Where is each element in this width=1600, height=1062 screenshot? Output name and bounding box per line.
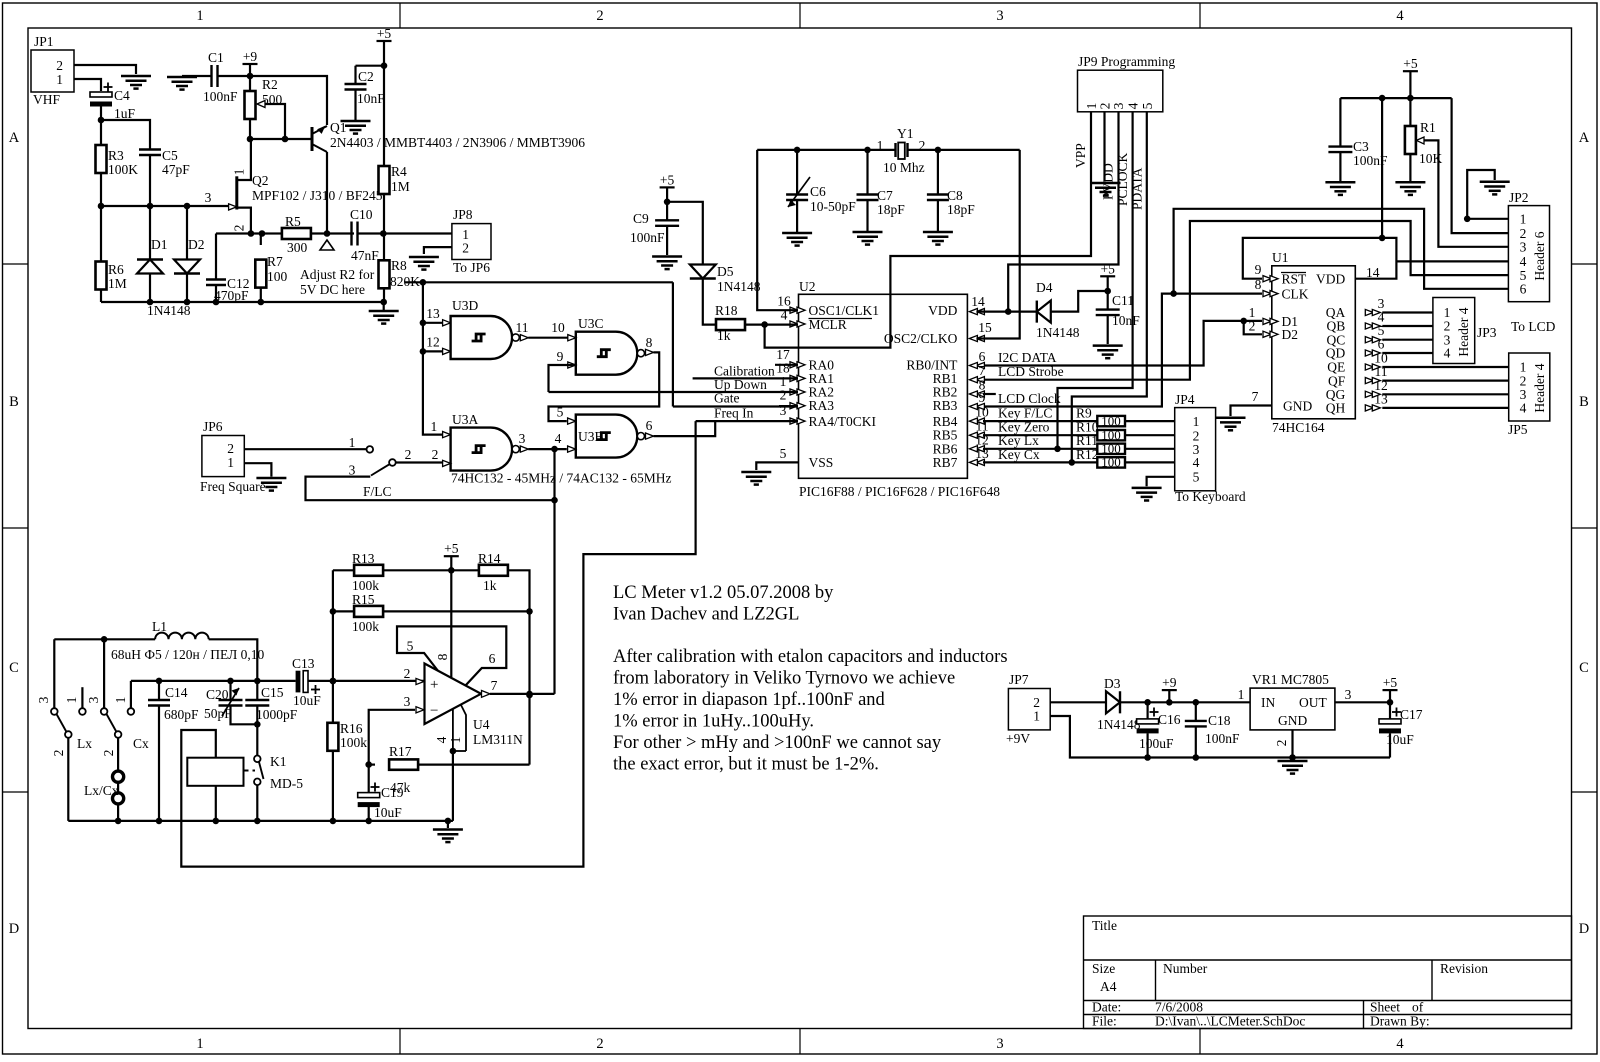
svg-text:of: of [1412, 1000, 1424, 1015]
svg-text:5V DC here: 5V DC here [300, 282, 365, 297]
svg-text:After calibration with etalon: After calibration with etalon capacitors… [613, 647, 1008, 667]
svg-text:R3: R3 [108, 148, 124, 163]
svg-text:1: 1 [1033, 709, 1040, 724]
svg-text:14: 14 [1366, 265, 1380, 280]
svg-text:RST: RST [1282, 272, 1308, 287]
svg-text:IN: IN [1261, 695, 1275, 710]
svg-text:R15: R15 [352, 592, 375, 607]
svg-text:R1: R1 [1420, 120, 1436, 135]
svg-text:D: D [9, 921, 19, 937]
svg-text:CLK: CLK [1282, 287, 1309, 302]
svg-text:VR1 MC7805: VR1 MC7805 [1252, 672, 1329, 687]
svg-text:2: 2 [51, 750, 66, 757]
svg-text:RA3: RA3 [809, 398, 835, 413]
svg-text:5: 5 [407, 639, 414, 654]
svg-text:47nF: 47nF [351, 248, 379, 263]
svg-text:1N4148: 1N4148 [1097, 717, 1141, 732]
svg-text:C14: C14 [165, 685, 188, 700]
svg-text:10nF: 10nF [357, 91, 385, 106]
svg-text:C17: C17 [1400, 707, 1423, 722]
svg-text:JP7: JP7 [1009, 672, 1029, 687]
svg-text:3: 3 [86, 696, 101, 703]
svg-text:4: 4 [1520, 401, 1527, 416]
svg-text:QH: QH [1326, 401, 1346, 416]
svg-text:PDATA: PDATA [1130, 167, 1145, 210]
svg-text:1N4148: 1N4148 [717, 279, 761, 294]
svg-text:R8: R8 [391, 258, 407, 273]
svg-text:LM311N: LM311N [473, 732, 523, 747]
svg-text:MD-5: MD-5 [270, 776, 303, 791]
svg-text:7: 7 [1252, 389, 1259, 404]
svg-text:Freq In: Freq In [714, 406, 754, 421]
svg-text:VDD: VDD [928, 303, 957, 318]
svg-text:Y1: Y1 [897, 126, 914, 141]
svg-text:C7: C7 [877, 188, 893, 203]
svg-text:4: 4 [1444, 346, 1451, 361]
svg-text:2: 2 [462, 241, 469, 256]
svg-text:+: + [430, 677, 438, 693]
svg-text:3: 3 [36, 696, 51, 703]
svg-text:7: 7 [979, 363, 986, 378]
svg-text:QD: QD [1326, 346, 1346, 361]
svg-text:D:\Ivan\..\LCMeter.SchDoc: D:\Ivan\..\LCMeter.SchDoc [1155, 1014, 1305, 1029]
svg-text:9: 9 [557, 349, 564, 364]
svg-text:−: − [430, 703, 438, 719]
svg-text:D4: D4 [1036, 280, 1053, 295]
svg-text:6: 6 [979, 349, 986, 364]
svg-text:3: 3 [996, 1036, 1003, 1052]
svg-text:+5: +5 [1101, 261, 1116, 276]
svg-text:300: 300 [287, 240, 308, 255]
svg-text:1k: 1k [717, 328, 731, 343]
svg-text:File:: File: [1092, 1014, 1117, 1029]
svg-text:GND: GND [1278, 713, 1307, 728]
svg-text:11: 11 [516, 320, 529, 335]
svg-text:Adjust R2 for: Adjust R2 for [300, 267, 375, 282]
svg-text:10: 10 [551, 320, 565, 335]
svg-text:JP4: JP4 [1175, 392, 1195, 407]
svg-text:B: B [9, 394, 19, 410]
svg-text:1N4148: 1N4148 [147, 303, 191, 318]
svg-text:C6: C6 [810, 184, 826, 199]
svg-text:3: 3 [996, 8, 1003, 24]
svg-text:K1: K1 [270, 754, 287, 769]
svg-text:U3D: U3D [452, 298, 478, 313]
svg-text:L1: L1 [152, 619, 167, 634]
svg-text:RB3: RB3 [933, 398, 958, 413]
svg-text:C1: C1 [208, 50, 224, 65]
svg-text:3: 3 [404, 694, 411, 709]
svg-text:1% error in 1uHy..100uHy.: 1% error in 1uHy..100uHy. [613, 712, 814, 732]
svg-text:3: 3 [780, 403, 787, 418]
svg-text:Cx: Cx [133, 736, 149, 751]
svg-text:1: 1 [1238, 687, 1245, 702]
svg-text:PVDD: PVDD [1101, 163, 1116, 200]
svg-text:C18: C18 [1208, 713, 1231, 728]
svg-text:9: 9 [1255, 262, 1262, 277]
svg-text:GND: GND [1283, 399, 1312, 414]
svg-text:U1: U1 [1272, 250, 1289, 265]
svg-text:R4: R4 [391, 164, 407, 179]
svg-text:Ivan Dachev and LZ2GL: Ivan Dachev and LZ2GL [613, 605, 799, 625]
svg-text:C15: C15 [261, 685, 284, 700]
svg-text:7/6/2008: 7/6/2008 [1155, 1000, 1203, 1015]
svg-text:R2: R2 [262, 77, 278, 92]
svg-text:I2C DATA: I2C DATA [998, 350, 1057, 365]
svg-text:+9: +9 [243, 49, 258, 64]
svg-text:F/LC: F/LC [363, 484, 392, 499]
svg-text:JP9 Programming: JP9 Programming [1078, 54, 1175, 69]
svg-text:100k: 100k [340, 735, 367, 750]
svg-text:10uF: 10uF [374, 805, 402, 820]
svg-text:OSC1/CLK1: OSC1/CLK1 [809, 303, 880, 318]
svg-text:C2: C2 [358, 69, 374, 84]
svg-text:100k: 100k [352, 619, 379, 634]
svg-text:R7: R7 [267, 254, 283, 269]
svg-text:Header 6: Header 6 [1532, 231, 1547, 280]
svg-text:3: 3 [1111, 102, 1126, 109]
svg-text:JP5: JP5 [1508, 422, 1528, 437]
svg-text:VPP: VPP [1073, 143, 1088, 168]
svg-text:4: 4 [555, 431, 562, 446]
svg-text:6: 6 [646, 418, 653, 433]
svg-text:VHF: VHF [33, 92, 60, 107]
svg-text:B: B [1579, 394, 1589, 410]
svg-text:1M: 1M [108, 276, 127, 291]
svg-text:+9V: +9V [1006, 731, 1030, 746]
svg-text:3: 3 [519, 431, 526, 446]
svg-text:U2: U2 [799, 279, 816, 294]
svg-text:1: 1 [877, 138, 884, 153]
svg-text:the exact error, but it must b: the exact error, but it must be 1-2%. [613, 755, 879, 775]
svg-text:2: 2 [227, 441, 234, 456]
svg-text:100: 100 [1101, 413, 1121, 428]
svg-text:D: D [1579, 921, 1589, 937]
svg-text:4: 4 [1125, 102, 1140, 109]
svg-text:Header 4: Header 4 [1456, 307, 1471, 356]
svg-text:1: 1 [349, 435, 356, 450]
svg-text:18pF: 18pF [947, 202, 975, 217]
svg-text:10 Mhz: 10 Mhz [883, 160, 925, 175]
svg-text:C4: C4 [114, 88, 130, 103]
svg-text:C13: C13 [292, 656, 315, 671]
svg-text:15: 15 [978, 320, 992, 335]
svg-text:Key F/LC: Key F/LC [998, 406, 1052, 421]
svg-text:100nF: 100nF [203, 89, 238, 104]
svg-text:D5: D5 [717, 264, 734, 279]
svg-text:1: 1 [227, 455, 234, 470]
svg-text:68uH Ф5 / 120н / ПЕЛ 0,10: 68uH Ф5 / 120н / ПЕЛ 0,10 [111, 647, 264, 662]
svg-text:5: 5 [780, 446, 787, 461]
svg-text:Q2: Q2 [252, 173, 269, 188]
svg-text:1: 1 [196, 8, 203, 24]
svg-text:1: 1 [232, 169, 247, 176]
svg-text:A: A [1579, 130, 1590, 146]
svg-text:470pF: 470pF [214, 288, 249, 303]
svg-text:Date:: Date: [1092, 1000, 1121, 1015]
svg-text:+5: +5 [660, 172, 675, 187]
svg-text:C3: C3 [1353, 139, 1369, 154]
svg-text:RB7: RB7 [933, 455, 958, 470]
svg-text:R18: R18 [715, 303, 738, 318]
svg-text:MCLR: MCLR [809, 317, 847, 332]
svg-text:18pF: 18pF [877, 202, 905, 217]
svg-text:3: 3 [205, 190, 212, 205]
svg-text:10nF: 10nF [1112, 313, 1140, 328]
svg-text:JP1: JP1 [34, 34, 54, 49]
svg-text:U3C: U3C [578, 316, 604, 331]
svg-text:C9: C9 [633, 211, 649, 226]
svg-text:2: 2 [432, 447, 439, 462]
svg-text:3: 3 [1345, 687, 1352, 702]
svg-text:JP6: JP6 [203, 419, 223, 434]
svg-text:1N4148: 1N4148 [1036, 325, 1080, 340]
svg-text:1: 1 [56, 72, 63, 87]
svg-text:C16: C16 [1158, 712, 1181, 727]
svg-text:C11: C11 [1112, 293, 1134, 308]
svg-text:1000pF: 1000pF [256, 707, 298, 722]
svg-text:Drawn By:: Drawn By: [1370, 1014, 1430, 1029]
svg-text:1: 1 [1193, 414, 1200, 429]
svg-text:PCLOCK: PCLOCK [1115, 152, 1130, 206]
svg-text:1: 1 [196, 1036, 203, 1052]
svg-text:R17: R17 [389, 744, 412, 759]
svg-text:VSS: VSS [809, 455, 834, 470]
svg-text:2: 2 [232, 225, 247, 232]
svg-text:Header 4: Header 4 [1532, 363, 1547, 412]
svg-text:C: C [1579, 660, 1589, 676]
svg-text:D1: D1 [151, 237, 168, 252]
svg-text:100K: 100K [108, 162, 138, 177]
svg-text:4: 4 [1396, 8, 1404, 24]
svg-text:A4: A4 [1100, 979, 1117, 994]
svg-text:LC Meter v1.2 05.07.2008 by: LC Meter v1.2 05.07.2008 by [613, 583, 834, 603]
svg-text:5: 5 [557, 405, 564, 420]
svg-text:OUT: OUT [1299, 695, 1327, 710]
svg-text:1: 1 [113, 697, 128, 704]
svg-text:JP3: JP3 [1477, 325, 1497, 340]
svg-text:13: 13 [426, 306, 440, 321]
svg-text:14: 14 [971, 294, 985, 309]
svg-text:100: 100 [267, 269, 288, 284]
svg-text:8: 8 [435, 653, 450, 660]
svg-text:100nF: 100nF [1205, 731, 1240, 746]
svg-text:2: 2 [596, 1036, 603, 1052]
svg-text:C20: C20 [206, 687, 229, 702]
svg-text:7: 7 [491, 678, 498, 693]
svg-text:9: 9 [979, 390, 986, 405]
svg-text:100uF: 100uF [1139, 736, 1174, 751]
svg-text:To Keyboard: To Keyboard [1175, 489, 1246, 504]
svg-text:C10: C10 [350, 207, 373, 222]
svg-text:47pF: 47pF [162, 162, 190, 177]
svg-text:R9: R9 [1076, 406, 1092, 421]
svg-text:10uF: 10uF [293, 693, 321, 708]
svg-text:R14: R14 [478, 551, 501, 566]
svg-text:+5: +5 [444, 541, 459, 556]
svg-text:50pF: 50pF [204, 706, 232, 721]
svg-text:U4: U4 [473, 717, 490, 732]
svg-text:A: A [9, 130, 20, 146]
svg-text:2: 2 [780, 388, 787, 403]
svg-text:Title: Title [1092, 918, 1117, 933]
svg-text:R13: R13 [352, 551, 375, 566]
svg-text:1M: 1M [391, 179, 410, 194]
svg-text:2N4403 / MMBT4403 / 2N3906 / M: 2N4403 / MMBT4403 / 2N3906 / MMBT3906 [330, 135, 585, 150]
svg-text:PIC16F88 / PIC16F628 / PIC16F6: PIC16F88 / PIC16F628 / PIC16F648 [799, 484, 1000, 499]
svg-text:Lx: Lx [77, 736, 92, 751]
svg-text:OSC2/CLKO: OSC2/CLKO [884, 331, 958, 346]
svg-text:Freq Square: Freq Square [200, 479, 266, 494]
svg-text:LCD Clock: LCD Clock [998, 391, 1061, 406]
svg-text:8: 8 [646, 335, 653, 350]
svg-text:4: 4 [1193, 455, 1200, 470]
svg-text:MPF102 / J310 / BF245: MPF102 / J310 / BF245 [252, 188, 383, 203]
svg-text:2: 2 [405, 447, 412, 462]
svg-text:1: 1 [448, 737, 463, 744]
svg-text:2: 2 [1274, 740, 1289, 747]
svg-text:To LCD: To LCD [1511, 319, 1556, 334]
svg-text:3: 3 [349, 463, 356, 478]
svg-text:D2: D2 [1282, 327, 1299, 342]
svg-text:+5: +5 [377, 26, 392, 41]
svg-text:1uF: 1uF [114, 106, 136, 121]
svg-text:C8: C8 [947, 188, 963, 203]
svg-text:Sheet: Sheet [1370, 1000, 1400, 1015]
svg-text:4: 4 [1396, 1036, 1404, 1052]
svg-text:5: 5 [1140, 102, 1155, 109]
svg-text:C: C [9, 660, 19, 676]
svg-text:+5: +5 [1403, 56, 1418, 71]
svg-text:To JP6: To JP6 [453, 260, 490, 275]
svg-text:R16: R16 [340, 721, 363, 736]
svg-text:47k: 47k [390, 780, 411, 795]
svg-text:U3A: U3A [452, 412, 478, 427]
svg-text:12: 12 [426, 335, 440, 350]
svg-text:1: 1 [431, 419, 438, 434]
svg-text:2: 2 [101, 750, 116, 757]
svg-text:C5: C5 [162, 148, 178, 163]
svg-text:R5: R5 [285, 214, 301, 229]
svg-text:1: 1 [1520, 212, 1527, 227]
svg-text:D2: D2 [188, 237, 205, 252]
svg-text:RA4/T0CKI: RA4/T0CKI [809, 414, 877, 429]
svg-text:1k: 1k [483, 578, 497, 593]
svg-text:+9: +9 [1162, 675, 1177, 690]
svg-text:D3: D3 [1104, 676, 1121, 691]
svg-text:Revision: Revision [1440, 961, 1488, 976]
svg-text:Size: Size [1092, 961, 1115, 976]
svg-text:1: 1 [64, 697, 79, 704]
svg-text:74HC132 - 45MHz / 74AC132 - 65: 74HC132 - 45MHz / 74AC132 - 65MHz [451, 471, 672, 486]
svg-text:+5: +5 [1383, 675, 1398, 690]
svg-text:680pF: 680pF [164, 707, 199, 722]
svg-text:100: 100 [1101, 455, 1121, 470]
svg-text:2: 2 [56, 58, 63, 73]
svg-text:VDD: VDD [1316, 272, 1345, 287]
svg-text:JP2: JP2 [1509, 190, 1529, 205]
svg-text:1% error in diapason 1pf..100n: 1% error in diapason 1pf..100nF and [613, 690, 886, 710]
svg-text:JP8: JP8 [453, 207, 473, 222]
svg-text:6: 6 [1520, 282, 1527, 297]
svg-text:U3B: U3B [578, 429, 604, 444]
svg-text:6: 6 [489, 651, 496, 666]
svg-text:100nF: 100nF [630, 230, 665, 245]
svg-text:from laboratory in Veliko Tyrn: from laboratory in Veliko Tyrnovo we ach… [613, 669, 955, 689]
svg-text:4: 4 [434, 736, 449, 743]
svg-text:Number: Number [1163, 961, 1208, 976]
svg-text:R6: R6 [108, 262, 124, 277]
svg-text:For other > mHy and >100nF we: For other > mHy and >100nF we cannot say [613, 733, 942, 753]
svg-text:2: 2 [596, 8, 603, 24]
svg-text:16: 16 [777, 294, 791, 309]
svg-text:3: 3 [1520, 240, 1527, 255]
svg-text:100k: 100k [352, 578, 379, 593]
svg-text:5: 5 [1193, 469, 1200, 484]
svg-text:2: 2 [919, 138, 926, 153]
svg-text:74HC164: 74HC164 [1272, 420, 1325, 435]
svg-text:2: 2 [404, 666, 411, 681]
svg-text:10-50pF: 10-50pF [810, 199, 856, 214]
